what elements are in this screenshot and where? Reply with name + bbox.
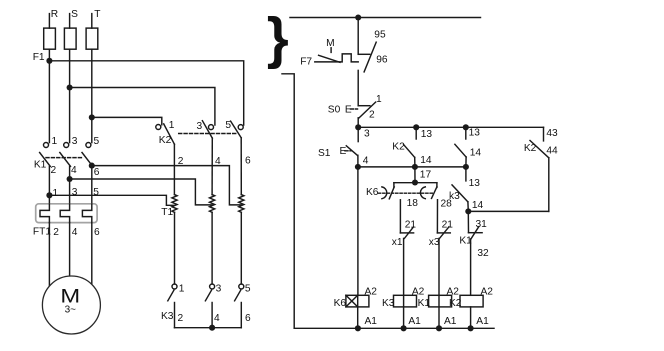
node A1 of K1 [436,325,442,331]
wire T phase top [91,14,93,29]
wire S0 to node 3 [357,118,359,128]
svg-text:3: 3 [72,136,78,147]
svg-text:13: 13 [469,178,481,189]
wire R branch to K2 contact 5 [49,61,243,125]
wire R phase top [48,14,50,29]
wire node k3-14 down to K1 31 [467,211,469,232]
node K3 star point [209,325,215,331]
svg-text:A2: A2 [412,287,425,298]
F7 trip wedge [319,55,340,62]
svg-text:E: E [345,105,352,116]
wire T FT1 to motor [91,223,93,284]
contactor K1 pole 5-6 [82,143,93,167]
contact k3 13-14 (aux NO) [452,185,468,212]
svg-text:k3: k3 [449,191,460,202]
wire R FT1 to motor [48,223,50,287]
contactor K1 pole 3-4 [60,143,71,167]
wire T1 winding 1 down to K3 [174,212,176,284]
svg-text:K2: K2 [449,298,462,309]
K1 mechanical link (dashed) [46,157,84,159]
wire R phase below fuse to contact K1-1 [48,49,50,142]
svg-text:3: 3 [197,121,203,132]
svg-text:FT1: FT1 [33,227,51,238]
svg-text:21: 21 [405,220,417,231]
K2 mechanical link (dashed) [179,133,238,135]
svg-text:A1: A1 [444,316,457,327]
svg-text:2: 2 [178,313,184,324]
svg-text:5: 5 [225,120,231,131]
timed contact K6 (off-delay, two branches) [379,183,437,199]
svg-text:R: R [51,9,58,20]
wire control L2 feed stub [282,74,294,328]
svg-text:T: T [94,9,100,20]
svg-text:A2: A2 [447,287,460,298]
svg-text:95: 95 [374,30,386,41]
contact F7 95-96 (thermal relay NC) [358,42,376,72]
svg-text:K2: K2 [159,135,172,146]
svg-text:3~: 3~ [65,304,77,315]
svg-text:}: } [267,6,289,69]
fuse F1 (R phase) [44,28,56,49]
svg-text:K1: K1 [34,160,47,171]
node 17 (K6 contact common) [412,179,418,185]
node R junction [46,58,52,64]
wire K3 star bus [175,327,242,329]
svg-text:18: 18 [407,198,419,209]
wire K6 left branch down to x1 [399,200,401,233]
wire T K1 output down to FT1 [91,166,93,204]
svg-text:1: 1 [179,284,185,295]
svg-text:x3: x3 [429,237,440,248]
wire main column top [357,18,359,55]
node A1 of K2 [468,325,474,331]
wire F7 to S0 [357,70,359,105]
svg-text:2: 2 [51,165,57,176]
contactor K2 pole 5-6 [231,121,244,138]
wire S K1 output down to FT1 [69,166,71,203]
svg-text:13: 13 [469,128,481,139]
contactor K3 pole 3-4 [205,284,214,328]
wire S FT1 to motor [69,223,71,277]
svg-text:A2: A2 [365,287,378,298]
svg-text:5: 5 [93,187,99,198]
node 14 of k3 [465,208,471,214]
wire node 14B down to k3 contact [465,167,467,181]
S0 actuator dashes [351,108,358,110]
wire tap S to T1 winding 2 [70,179,213,205]
svg-text:32: 32 [477,248,489,259]
svg-text:A1: A1 [365,316,378,327]
node T lower junction [89,163,95,169]
node 13 col A [413,124,419,130]
wire S branch to K2 contact 3 [70,88,215,126]
wire bus rung 14 [358,166,466,168]
wire bus rung 13 [358,126,543,128]
svg-text:5: 5 [245,284,251,295]
svg-text:17: 17 [420,170,432,181]
coil K6 (timer) [346,295,369,307]
contact x3 21-22 (NC) [437,227,450,239]
contact x1 21-22 (NC) [400,227,413,239]
wire node 14 to K6 contact [414,167,416,183]
autotransformer T1 winding 2 [210,195,215,213]
coil K1 [429,295,452,307]
node S lower junction [67,176,73,182]
svg-text:14: 14 [472,200,484,211]
svg-text:4: 4 [71,165,77,176]
wire T1 winding 3 down to K3 [240,212,242,284]
svg-text:A1: A1 [476,316,489,327]
wire main column to K6 coil [357,167,359,295]
wire T branch to K2 contact 1 [92,117,162,124]
svg-text:4: 4 [214,313,220,324]
wire S phase below fuse to contact K1-3 [69,49,71,142]
F7 heater element [315,54,358,62]
wire K6 right branch down to x3 [436,200,438,233]
FT1 heater element R [40,204,49,223]
wire K2-2 down to T1 winding 1 [173,144,175,194]
svg-text:K2: K2 [524,143,537,154]
svg-text:K6: K6 [334,298,347,309]
wire x3 to K1 coil [438,238,440,328]
svg-text:K1: K1 [418,298,431,309]
node 13 col B [463,124,469,130]
wire K2 coil to bottom bus [470,307,472,328]
svg-text:x1: x1 [392,237,403,248]
contactor K2 pole 3-4 [202,121,213,138]
contact K2 43-44 (aux NO) [530,127,549,211]
node T junction [89,114,95,120]
svg-text:96: 96 [376,55,388,66]
svg-text:4: 4 [72,227,78,238]
wire K1-32 to K2 coil [470,239,472,295]
svg-text:43: 43 [546,128,558,139]
svg-text:S1: S1 [318,148,331,159]
wire K2-44 to node 14 of k3 [468,210,549,212]
svg-text:6: 6 [94,167,100,178]
wire R K1 output down to FT1 [48,166,50,203]
pushbutton S0 1-2 (stop, NC) [358,102,375,118]
svg-text:1: 1 [376,94,382,105]
svg-text:1: 1 [53,188,59,199]
contactor K1 pole 1-2 [40,143,51,167]
svg-text:6: 6 [245,156,251,167]
svg-text:3: 3 [216,284,222,295]
svg-text:13: 13 [421,129,433,140]
svg-text:A2: A2 [481,287,494,298]
thermal overload relay FT1 box [36,204,97,223]
fuse F1 (S phase) [64,28,76,49]
svg-text:14: 14 [420,155,432,166]
wire K6 coil to bottom bus [357,307,359,328]
FT1 heater element T [82,204,91,223]
svg-text:A1: A1 [408,316,421,327]
node 14 col A [412,164,418,170]
motor M 3~ [42,276,100,334]
svg-text:K6: K6 [366,187,379,198]
svg-text:3: 3 [72,187,78,198]
FT1 heater element S [60,204,69,223]
contactor K3 pole 1-2 [168,284,177,328]
svg-text:4: 4 [215,156,221,167]
svg-text:2: 2 [53,227,59,238]
svg-text:44: 44 [546,145,558,156]
svg-text:F1: F1 [33,52,45,63]
svg-text:3: 3 [364,129,370,140]
node top bus junction [355,14,361,20]
svg-text:1: 1 [169,120,175,131]
wire tap R to T1 winding 1 [49,195,174,205]
coil K3 [394,295,417,307]
svg-text:S: S [71,9,78,20]
svg-text:F7: F7 [300,56,312,67]
node 14 col B [463,164,469,170]
pushbutton S1 3-4 (start, NO) [346,127,358,167]
svg-text:2: 2 [178,156,184,167]
svg-text:6: 6 [245,313,251,324]
svg-text:T1: T1 [161,207,173,218]
wire control L1 top bus [290,17,481,19]
svg-text:M: M [326,38,335,49]
svg-text:S0: S0 [328,105,341,116]
fuse F1 (T phase) [86,28,98,49]
wire S phase top [69,14,71,29]
svg-text:6: 6 [94,227,100,238]
svg-text:K3: K3 [382,298,395,309]
S1 actuator dashes [345,150,351,152]
autotransformer T1 winding 3 [239,195,244,213]
contact K1 31-32 (aux NC) [469,227,483,239]
svg-text:4: 4 [363,155,369,166]
wire K2-4 down to T1 winding 2 [211,138,213,195]
wire bottom bus [294,327,494,329]
node A1 of K6 [355,325,361,331]
contactor K3 pole 5-6 [235,284,244,328]
node 3 [355,124,361,130]
node 4 [355,164,361,170]
M actuator tick [330,48,332,53]
coil K2 [460,295,483,307]
svg-text:K2: K2 [392,142,405,153]
contact K2 13-14 (aux NO) [404,127,417,167]
wire x1 to K3 coil [403,238,405,328]
node R lower junction [46,192,52,198]
svg-text:5: 5 [94,136,100,147]
svg-text:14: 14 [470,147,482,158]
node A1 of K3 [401,325,407,331]
wire K2-6 down to T1 winding 3 [240,138,242,195]
autotransformer T1 winding 1 [172,195,177,213]
contactor K2 pole 1-2 [156,124,175,144]
node S junction [67,84,73,90]
wire T phase below fuse to contact K1-5 [91,49,93,142]
svg-text:1: 1 [52,136,58,147]
svg-text:2: 2 [369,110,375,121]
wire T1 winding 2 down to K3 [211,212,213,284]
svg-text:K3: K3 [161,311,174,322]
wire tap T to T1 winding 3 [92,166,242,205]
contact col B 13-14 (aux NO, unlabeled) [455,127,466,167]
